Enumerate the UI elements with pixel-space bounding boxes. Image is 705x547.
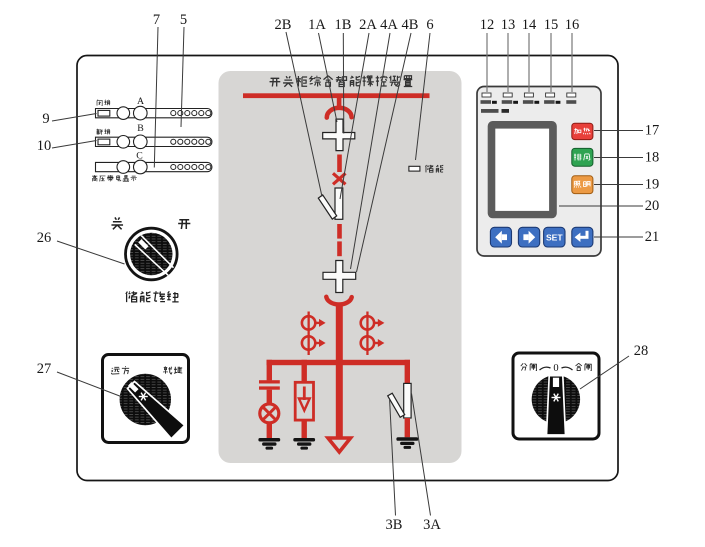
- svg-text:26: 26: [37, 230, 52, 246]
- row B window: [98, 139, 110, 145]
- label 解锁: [97, 129, 110, 135]
- label 闭锁: [97, 100, 110, 106]
- right arrow button: [518, 227, 539, 247]
- light button 照明: [572, 176, 593, 194]
- isolating contact cross 2: [323, 261, 356, 293]
- busbar: [243, 93, 430, 98]
- capacitor plate 1: [259, 380, 280, 383]
- leader 26: [57, 241, 125, 264]
- row B circle 2: [134, 135, 148, 149]
- svg-text:7: 7: [153, 12, 160, 28]
- LED caption 1: [481, 100, 497, 104]
- svg-text:28: 28: [634, 343, 649, 359]
- lower tulip contact: [326, 297, 351, 305]
- branch mid drop wire: [302, 360, 307, 383]
- storage knob outer ring: [126, 228, 178, 280]
- remote-local star: [139, 393, 148, 401]
- remote-local switch plate: [103, 355, 189, 443]
- CT left arrow 1: [315, 319, 325, 327]
- ground 1: [258, 438, 280, 450]
- remote-local side tick left: [101, 391, 104, 405]
- panel front plate: [77, 56, 618, 481]
- svg-text:15: 15: [544, 17, 559, 33]
- row A circle 1: [117, 107, 130, 120]
- svg-text:SET: SET: [546, 233, 563, 243]
- leader 6: [416, 33, 431, 160]
- row B small circles: [171, 139, 211, 144]
- CT right arrow 2: [374, 339, 384, 347]
- earth switch body: [404, 383, 411, 418]
- CT left arrow 2: [315, 339, 325, 347]
- storage knob disc: [130, 233, 172, 275]
- svg-text:20: 20: [645, 198, 660, 214]
- svg-text:1A: 1A: [308, 17, 326, 33]
- callout lines: [52, 27, 643, 516]
- label 分闸: [521, 363, 537, 370]
- row C circle 2: [134, 160, 148, 174]
- LED caption 2: [502, 100, 518, 104]
- circuit breaker body: [335, 188, 343, 219]
- branch bus wire: [267, 360, 411, 365]
- open-close side tick left: [512, 389, 515, 403]
- svg-text:5: 5: [180, 12, 187, 28]
- leaders 12-16: [487, 33, 572, 92]
- earth switch lower wire: [405, 418, 410, 437]
- upper tulip contact: [327, 108, 352, 118]
- lamp X: [263, 407, 275, 419]
- label 高压带电显示: [92, 175, 137, 181]
- label 开: [178, 220, 190, 229]
- branch right drop wire: [405, 360, 410, 384]
- label 远方: [111, 366, 129, 374]
- leader 2A: [340, 33, 369, 199]
- ground 2: [293, 438, 315, 450]
- arc dash left: [540, 367, 551, 370]
- label 关: [111, 217, 123, 229]
- arrester ground wire: [302, 420, 307, 438]
- svg-text:12: 12: [480, 17, 495, 33]
- ground 3: [396, 437, 418, 449]
- SET button: [544, 227, 565, 247]
- svg-text:13: 13: [501, 17, 516, 33]
- leader 4B: [357, 33, 412, 272]
- open-close knob disc: [532, 375, 580, 423]
- svg-text:C: C: [136, 151, 143, 162]
- open-close star: [552, 394, 561, 402]
- label 合闸: [576, 363, 592, 370]
- row C circle 1: [117, 161, 130, 174]
- lamp circle: [260, 404, 279, 423]
- leader 5: [181, 27, 184, 127]
- row A circle 2: [134, 106, 148, 120]
- CT right wire: [366, 312, 368, 356]
- wire main feeder: [336, 306, 343, 437]
- caption line 2: [481, 109, 509, 113]
- wire dash lower 2: [337, 241, 342, 256]
- isolating contact cross 1: [323, 119, 355, 150]
- leader 4A: [351, 33, 391, 269]
- heater button 加热: [572, 123, 593, 139]
- svg-text:4B: 4B: [402, 17, 419, 33]
- branch left drop wire: [267, 360, 272, 381]
- label 储能旋钮: [126, 291, 179, 302]
- leader 9: [52, 114, 97, 122]
- lamp ground wire: [267, 423, 272, 439]
- LED window 2: [503, 93, 512, 97]
- leader 27: [57, 372, 121, 397]
- label 储能 (panel): [425, 165, 443, 173]
- row B circle 1: [117, 136, 130, 149]
- svg-text:18: 18: [645, 150, 660, 166]
- svg-text:4A: 4A: [380, 17, 398, 33]
- svg-text:3A: 3A: [423, 517, 441, 533]
- arrester box: [295, 382, 313, 420]
- open-close side tick right: [598, 389, 601, 403]
- LED caption 3: [523, 100, 539, 104]
- open-close handle: [547, 376, 566, 435]
- svg-text:A: A: [137, 96, 144, 107]
- voltage display row B bar: [96, 137, 212, 146]
- circuit breaker blade: [318, 195, 336, 219]
- arrester arrow shaft: [303, 387, 306, 401]
- LED caption 5: [566, 100, 576, 104]
- LCD bezel: [488, 121, 557, 218]
- wire dash upper: [337, 155, 342, 173]
- leader 18: [594, 157, 643, 159]
- voltage display row C bar: [96, 162, 212, 171]
- storage knob slot: [138, 239, 148, 249]
- row A small circles: [171, 111, 211, 116]
- LCD screen: [495, 129, 549, 211]
- LED window 5: [567, 93, 576, 97]
- left arrow button: [490, 227, 511, 247]
- X mark: [333, 173, 346, 184]
- enter button: [572, 227, 593, 247]
- svg-text:19: 19: [645, 177, 660, 193]
- mimic diagram gray panel: [219, 71, 462, 463]
- label 就地: [164, 366, 182, 374]
- remote-local handle slot: [128, 382, 138, 392]
- row C small circles: [171, 164, 211, 169]
- LED window 4: [546, 93, 555, 97]
- leader 20: [559, 205, 643, 207]
- svg-text:0: 0: [553, 363, 558, 374]
- svg-text:2B: 2B: [275, 17, 292, 33]
- leader 21: [594, 236, 643, 238]
- leader 28: [580, 356, 629, 389]
- LED window 1: [482, 93, 491, 97]
- energy storage indicator: [409, 166, 420, 171]
- storage knob handle lines: [135, 236, 174, 276]
- remote-local knob disc: [120, 374, 171, 425]
- open-close switch plate: [513, 353, 599, 439]
- remote-local handle: [128, 382, 185, 439]
- svg-text:14: 14: [522, 17, 537, 33]
- voltage display row A bar: [96, 109, 212, 118]
- control device body: [477, 87, 601, 257]
- wire busbar stub: [337, 98, 342, 108]
- CT left ring 1: [302, 316, 315, 329]
- row A window: [98, 110, 110, 116]
- arrester arrow head: [299, 399, 310, 411]
- wire dash lower 1: [337, 224, 342, 239]
- svg-text:21: 21: [645, 229, 660, 245]
- remote-local side tick right: [187, 391, 190, 405]
- CT right arrow 1: [374, 319, 384, 327]
- open-close handle slot: [553, 378, 559, 387]
- CT right ring 1: [361, 316, 374, 329]
- LED caption 4: [544, 100, 560, 104]
- svg-text:17: 17: [645, 123, 660, 139]
- capacitor lower wire: [267, 390, 272, 405]
- capacitor plate 2: [259, 386, 280, 389]
- CT left ring 2: [302, 336, 315, 349]
- svg-text:6: 6: [426, 17, 433, 33]
- svg-text:1B: 1B: [335, 17, 352, 33]
- feeder arrow: [328, 438, 351, 452]
- svg-text:16: 16: [565, 17, 580, 33]
- LED window 3: [524, 93, 533, 97]
- leader 3B: [390, 398, 396, 516]
- svg-text:10: 10: [37, 138, 52, 154]
- title 开关柜综合智能操控装置: [270, 76, 413, 87]
- svg-text:9: 9: [42, 111, 49, 127]
- leader 7: [154, 27, 158, 168]
- fan button 排风: [572, 148, 593, 166]
- leader 1A: [319, 33, 338, 122]
- leader 1B: [342, 33, 345, 134]
- CT right ring 2: [361, 336, 374, 349]
- svg-text:B: B: [137, 123, 144, 134]
- svg-text:27: 27: [37, 361, 52, 377]
- leader 19: [594, 184, 643, 186]
- leader 3A: [412, 394, 431, 516]
- svg-text:3B: 3B: [386, 517, 403, 533]
- svg-text:2A: 2A: [359, 17, 377, 33]
- leader 10: [52, 141, 97, 149]
- CT left wire: [308, 312, 310, 356]
- leader 17: [594, 130, 643, 132]
- arc dash right: [562, 367, 573, 370]
- earth switch blade: [388, 393, 405, 417]
- leader 2B: [286, 32, 322, 197]
